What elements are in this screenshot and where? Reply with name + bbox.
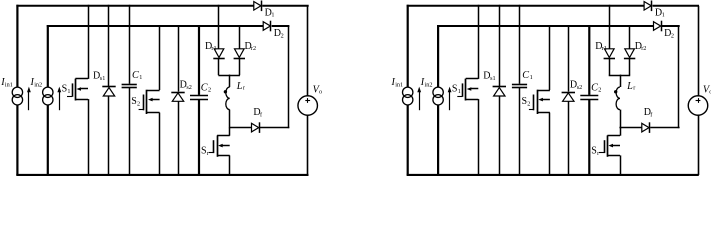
wire: junction down to Lr: [229, 75, 231, 87]
wire: Dr1-Dr2 join: [609, 75, 631, 77]
wire: junction down to Sr drain: [620, 128, 622, 136]
svg-text:r2: r2: [641, 45, 646, 52]
wire: C2 branch upper: [198, 25, 200, 95]
wire: Ds1 branch upper: [108, 5, 110, 86]
svg-text:r1: r1: [211, 45, 216, 52]
polarity dot of Lr: [614, 90, 617, 93]
arrow of Iin1: [419, 92, 421, 110]
inductor Lr: [616, 87, 620, 110]
wire: C1 branch upper: [129, 5, 131, 84]
wire: S2 branch lower: [159, 113, 161, 175]
svg-text:in1: in1: [395, 82, 403, 89]
svg-text:2: 2: [671, 33, 674, 40]
wire: junction down to Sr drain: [229, 128, 231, 136]
svg-text:1: 1: [530, 74, 533, 81]
svg-text:r: r: [633, 85, 635, 92]
diode Df: [642, 123, 649, 132]
svg-text:r: r: [243, 85, 245, 92]
wire: Iin2 branch upper: [437, 25, 439, 87]
wire: S2 branch upper: [159, 25, 161, 90]
wire: S2 branch upper: [549, 25, 551, 90]
wire: C1 branch lower: [519, 88, 521, 175]
wire: Dr2 branch (from second bus): [239, 25, 241, 49]
wire: bottom bus: [407, 174, 699, 176]
current source Iin1: [403, 87, 413, 97]
wire: C1 branch lower: [129, 88, 131, 175]
svg-text:s2: s2: [577, 84, 583, 91]
svg-text:in2: in2: [425, 82, 433, 89]
wire: C2 branch lower: [198, 100, 200, 175]
wire: Iin1 branch lower: [16, 105, 18, 175]
capacitor C2: [580, 95, 598, 97]
wire: S1 branch upper: [88, 5, 90, 79]
voltage source Vo: [298, 96, 318, 116]
svg-text:C: C: [591, 82, 598, 93]
left converter schematic: [0, 1, 322, 176]
arrow of Iin2: [59, 92, 61, 110]
wire: C1 branch upper: [519, 5, 521, 84]
wire: Iin2 branch lower: [437, 105, 439, 175]
wire: Ds1 branch lower: [499, 96, 501, 175]
svg-text:s1: s1: [490, 75, 496, 82]
wire: Df to right vertical: [260, 127, 289, 129]
capacitor C2: [190, 95, 208, 97]
wire: junction down to Lr: [620, 75, 622, 87]
wire: Dr2 lower lead: [239, 58, 241, 75]
svg-text:r1: r1: [602, 45, 607, 52]
capacitor C1: [512, 84, 527, 86]
svg-text:S: S: [62, 84, 68, 95]
wire: Ds2 branch upper: [178, 25, 180, 92]
wire: left border top (Iin1 branch upper): [407, 5, 409, 88]
svg-text:S: S: [452, 84, 458, 95]
svg-text:r2: r2: [251, 45, 256, 52]
svg-text:L: L: [236, 81, 243, 92]
diode Dr2: [625, 49, 635, 58]
inductor Lr: [226, 87, 230, 110]
wire: Ds2 branch lower: [178, 101, 180, 175]
wire: Df right vertical up to second bus: [678, 26, 680, 128]
svg-text:2: 2: [527, 100, 530, 107]
svg-text:1: 1: [67, 88, 70, 95]
wire: bottom bus: [16, 174, 308, 176]
wire: second bus right segment: [272, 25, 290, 27]
wire: C2 branch lower: [588, 100, 590, 175]
svg-text:2: 2: [598, 86, 601, 93]
svg-text:C: C: [522, 70, 529, 81]
svg-text:S: S: [131, 96, 137, 107]
right converter schematic: [391, 1, 711, 176]
svg-text:in2: in2: [34, 82, 42, 89]
diode Dr2: [235, 49, 245, 58]
svg-text:r: r: [207, 150, 209, 157]
wire: Iin2 branch lower: [47, 105, 49, 175]
diode D1: [254, 2, 261, 11]
plus sign of Vo: [696, 100, 701, 102]
wire: Dr1-Dr2 join: [218, 75, 240, 77]
svg-text:1: 1: [139, 74, 142, 81]
wire: junction to Df: [619, 127, 641, 129]
svg-text:2: 2: [208, 86, 211, 93]
wire: left border top (Iin1 branch upper): [16, 5, 18, 88]
diode D1: [644, 2, 651, 11]
svg-text:s2: s2: [186, 84, 192, 91]
wire: S1 branch upper: [478, 5, 480, 79]
diode Ds2: [171, 92, 184, 94]
diode D2: [654, 22, 661, 31]
diode Dr1: [605, 49, 615, 58]
arrow of Iin2: [449, 92, 451, 110]
wire: S1 branch lower: [88, 99, 90, 175]
svg-text:o: o: [319, 88, 322, 95]
plus sign of Vo: [305, 100, 310, 102]
wire: Ds1 branch upper: [499, 5, 501, 86]
wire: Sr source down to bottom bus: [620, 155, 622, 175]
wire: Vo branch upper: [698, 6, 700, 96]
diode Ds1: [102, 86, 115, 88]
wire: second bus left segment: [437, 25, 653, 27]
svg-text:1: 1: [458, 88, 461, 95]
wire: Sr source down to bottom bus: [229, 155, 231, 175]
wire: Df to right vertical: [650, 127, 679, 129]
svg-text:2: 2: [137, 100, 140, 107]
svg-text:r: r: [597, 150, 599, 157]
diode D2: [263, 22, 270, 31]
diode Ds1: [493, 86, 506, 88]
wire: Dr2 lower lead: [629, 58, 631, 75]
wire: second bus right segment: [662, 25, 680, 27]
wire: Vo branch upper: [307, 6, 309, 96]
MOSFET S2: [537, 90, 550, 92]
wire: Lr to junction: [229, 110, 231, 129]
svg-text:2: 2: [281, 33, 284, 40]
svg-text:S: S: [522, 96, 528, 107]
current source Iin2: [433, 87, 443, 97]
svg-text:1: 1: [662, 12, 665, 19]
diode Df: [252, 123, 259, 132]
diode Dr1: [214, 49, 224, 58]
polarity dot of Lr: [224, 90, 227, 93]
wire: top bus left segment: [407, 5, 644, 7]
wire: Dr1 branch (from top bus): [609, 5, 611, 49]
wire: Df right vertical up to second bus: [288, 26, 290, 128]
wire: top bus right segment: [262, 5, 308, 7]
wire: Ds2 branch upper: [568, 25, 570, 92]
wire: Lr to junction: [620, 110, 622, 129]
MOSFET Sr: [607, 135, 620, 137]
wire: top bus left segment: [16, 5, 253, 7]
MOSFET S2: [147, 90, 160, 92]
wire: Ds2 branch lower: [568, 101, 570, 175]
wire: Dr2 branch (from second bus): [629, 25, 631, 49]
svg-text:C: C: [201, 82, 208, 93]
MOSFET Sr: [217, 135, 230, 137]
wire: Vo branch lower: [698, 115, 700, 175]
wire: Ds1 branch lower: [108, 96, 110, 175]
wire: Vo branch lower: [307, 115, 309, 175]
wire: S2 branch lower: [549, 113, 551, 175]
svg-text:in1: in1: [5, 82, 13, 89]
capacitor C1: [122, 84, 137, 86]
MOSFET S1: [466, 78, 479, 80]
svg-text:L: L: [626, 81, 633, 92]
wire: C2 branch upper: [588, 25, 590, 95]
wire: second bus left segment: [47, 25, 263, 27]
wire: Dr1 lower lead: [609, 58, 611, 75]
MOSFET S1: [75, 78, 88, 80]
wire: Iin2 branch upper: [47, 25, 49, 87]
svg-text:S: S: [591, 146, 597, 157]
voltage source Vo: [688, 96, 708, 116]
svg-text:s1: s1: [100, 75, 106, 82]
wire: junction to Df: [229, 127, 251, 129]
wire: Iin1 branch lower: [407, 105, 409, 175]
wire: S1 branch lower: [478, 99, 480, 175]
wire: top bus right segment: [653, 5, 699, 7]
diode Ds2: [562, 92, 575, 94]
svg-text:1: 1: [271, 12, 274, 19]
wire: Dr1 lower lead: [218, 58, 220, 75]
arrow of Iin1: [28, 92, 30, 110]
svg-text:S: S: [201, 146, 207, 157]
wire: Dr1 branch (from top bus): [218, 5, 220, 49]
svg-text:C: C: [132, 70, 139, 81]
current source Iin2: [43, 87, 53, 97]
current source Iin1: [12, 87, 22, 97]
